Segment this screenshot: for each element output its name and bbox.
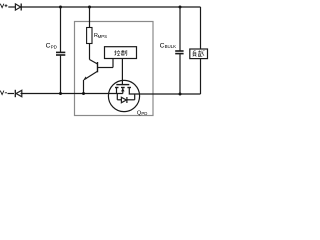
capacitor CBULK bbox=[175, 7, 183, 94]
node junction bottom CPD bbox=[59, 92, 62, 95]
node junction top RMPS bbox=[88, 6, 91, 9]
node junction top CPD bbox=[59, 6, 62, 9]
MOSFET QPD gate bar bbox=[116, 84, 129, 86]
MOSFET QPD body stub with arrow bbox=[121, 87, 125, 93]
wire base to control bbox=[112, 59, 114, 68]
svg-text:BULK: BULK bbox=[165, 44, 177, 49]
node junction top CBULK bbox=[179, 6, 182, 9]
node junction bottom emitter bbox=[82, 92, 85, 95]
wire gate from control to QPD bbox=[121, 59, 123, 85]
char 控 bbox=[114, 50, 120, 55]
transistor Q1 bbox=[83, 62, 113, 80]
resistor RMPS bbox=[87, 7, 92, 60]
label RMPS bbox=[94, 33, 107, 39]
wire top rail bbox=[21, 6, 200, 8]
capacitor CPD bbox=[56, 7, 65, 94]
transistor Q1 collector wire bbox=[90, 60, 98, 65]
diode D2 return V- bbox=[15, 90, 21, 97]
label CBULK bbox=[160, 42, 177, 49]
MOSFET QPD source stub bbox=[116, 87, 118, 93]
wire V- stub bbox=[8, 93, 15, 95]
svg-text:MPS: MPS bbox=[98, 34, 108, 39]
MOSFET QPD drain stub bbox=[129, 87, 139, 94]
label V- bbox=[0, 91, 7, 95]
label CPD bbox=[46, 43, 58, 50]
node junction CBULK bottom bbox=[179, 93, 182, 96]
MOSFET QPD circle bbox=[108, 80, 139, 111]
diode D1 input V+ bbox=[15, 4, 21, 11]
load box bbox=[190, 49, 208, 59]
wire load to bottom bbox=[200, 59, 202, 94]
label QPD bbox=[137, 111, 147, 117]
label 控制 (control) bbox=[114, 50, 127, 56]
wire bottom rail bbox=[21, 93, 123, 95]
wire right drop to load bbox=[200, 7, 202, 49]
MOSFET QPD channel segments bbox=[115, 87, 131, 89]
svg-text:PD: PD bbox=[141, 111, 147, 116]
MOSFET QPD body diode bbox=[117, 94, 134, 104]
IC outline box bbox=[75, 22, 154, 116]
label V+ bbox=[0, 4, 7, 8]
char 负 bbox=[193, 51, 197, 57]
control block bbox=[105, 47, 137, 59]
wire drain out to right bbox=[140, 93, 201, 95]
char 制 bbox=[121, 50, 127, 56]
wire emitter drop bbox=[83, 80, 85, 94]
label 负载 (load) bbox=[193, 50, 205, 56]
wire V+ stub bbox=[8, 6, 15, 8]
svg-text:PD: PD bbox=[51, 44, 58, 49]
char 载 bbox=[198, 50, 205, 56]
